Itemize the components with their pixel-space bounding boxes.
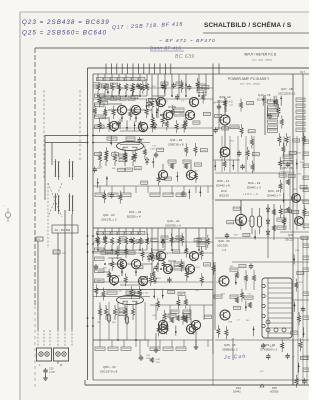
svg-text:B2250 x 4: B2250 x 4 xyxy=(127,215,141,219)
svg-text:Q11 ~ 18: Q11 ~ 18 xyxy=(170,138,183,142)
svg-text:x 2: x 2 xyxy=(222,248,226,252)
svg-text:10K: 10K xyxy=(152,315,156,317)
svg-text:D01 ~ 04: D01 ~ 04 xyxy=(129,210,142,214)
svg-text:—: — xyxy=(3,203,6,207)
svg-text:Q23 = 2SB438 = BC639: Q23 = 2SB438 = BC639 xyxy=(22,19,110,26)
svg-text:Dann BF 416: Dann BF 416 xyxy=(150,46,181,51)
svg-text:10K: 10K xyxy=(162,114,166,116)
svg-text:2SK131 x 2: 2SK131 x 2 xyxy=(101,218,117,222)
svg-text:BC 639: BC 639 xyxy=(175,54,195,60)
svg-text:Q17.: Q17. xyxy=(300,70,306,74)
svg-text:D13BB x 4: D13BB x 4 xyxy=(257,98,272,102)
svg-text:AC - DC SW.: AC - DC SW. xyxy=(55,228,72,232)
svg-text:POWER AMP. P.C.B ASS'Y: POWER AMP. P.C.B ASS'Y xyxy=(228,77,270,81)
svg-text:~ BF 472 ~ BF470: ~ BF 472 ~ BF470 xyxy=(159,38,216,44)
svg-text:2SB718 x 8: 2SB718 x 8 xyxy=(168,143,184,147)
svg-text:Q25 = 2SB560= BC640: Q25 = 2SB560= BC640 xyxy=(22,30,107,37)
svg-text:(510 - 4001 - 08650): (510 - 4001 - 08650) xyxy=(252,60,272,62)
svg-text:Q25 , 26: Q25 , 26 xyxy=(281,166,293,170)
svg-text:2SD756 x 4: 2SD756 x 4 xyxy=(165,224,181,228)
svg-text:Q19 ~ 22: Q19 ~ 22 xyxy=(167,219,180,223)
svg-text:INPUT / METER P.C.B.: INPUT / METER P.C.B. xyxy=(244,53,277,57)
svg-text:D20 ~ 22: D20 ~ 22 xyxy=(248,181,261,185)
svg-text:Q29 , 30: Q29 , 30 xyxy=(218,239,230,243)
svg-text:STK0050 x 2: STK0050 x 2 xyxy=(260,348,278,352)
svg-text:D5442 x 8: D5442 x 8 xyxy=(216,184,230,188)
svg-text:D35: D35 xyxy=(272,386,277,390)
svg-text:Q05 ~ 10: Q05 ~ 10 xyxy=(103,365,116,369)
svg-text:D5442 x 3: D5442 x 3 xyxy=(247,186,261,190)
svg-text:(510 - 4001 - 09600): (510 - 4001 - 09600) xyxy=(240,84,260,86)
svg-text:D34: D34 xyxy=(236,386,241,390)
svg-text:0.047: 0.047 xyxy=(150,149,156,151)
svg-text:SCHALTBILD / SCHÉMA / S: SCHALTBILD / SCHÉMA / S xyxy=(204,20,292,29)
svg-text:0.047: 0.047 xyxy=(49,371,56,374)
svg-text:2SB560 x 2: 2SB560 x 2 xyxy=(222,348,238,352)
svg-text:Q27 , 28: Q27 , 28 xyxy=(281,87,293,91)
svg-text:Q01 , 02: Q01 , 02 xyxy=(103,213,115,217)
svg-text:WZ350: WZ350 xyxy=(270,390,279,394)
svg-text:2SC1570 x 8: 2SC1570 x 8 xyxy=(100,370,118,374)
svg-text:D24 , 25: D24 , 25 xyxy=(268,189,280,193)
svg-text:D5442: D5442 xyxy=(233,390,241,394)
svg-text:10K: 10K xyxy=(171,193,175,195)
svg-text:10K: 10K xyxy=(113,278,117,280)
svg-text:2SC536: 2SC536 xyxy=(217,244,228,248)
svg-text:WZ130: WZ130 xyxy=(219,194,229,198)
svg-text:D19: D19 xyxy=(221,189,227,193)
svg-text:D05 ~ 12: D05 ~ 12 xyxy=(217,179,230,183)
svg-text:D5442 x ?: D5442 x ? xyxy=(267,194,281,198)
svg-text:Q13 ~ 16: Q13 ~ 16 xyxy=(258,93,271,97)
svg-text:+1.8 ¼ ~ ⅓: +1.8 ¼ ~ ⅓ xyxy=(243,192,259,196)
svg-text:Q25 , 26: Q25 , 26 xyxy=(224,343,236,347)
